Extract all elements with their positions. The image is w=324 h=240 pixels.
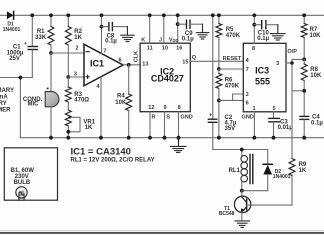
resistor R8 bbox=[301, 59, 322, 116]
svg-text:4: 4 bbox=[246, 58, 250, 64]
wire IC2 pin 12 (R) to ground bbox=[149, 112, 151, 138]
wire mic top lead bbox=[50, 53, 52, 91]
ground symbol below T1 bbox=[235, 221, 250, 228]
node junction at (20.4,77.5) bbox=[19, 76, 23, 80]
capacitor C8 bbox=[100, 23, 128, 45]
svg-text:J: J bbox=[159, 37, 162, 43]
svg-text:9: 9 bbox=[163, 105, 166, 111]
node top rail R1 bbox=[49, 13, 53, 17]
wire IC3 pin 8 to rail bbox=[253, 15, 255, 43]
wire IC3 pin 7 bbox=[219, 68, 243, 70]
svg-text:RL1: RL1 bbox=[229, 168, 241, 174]
node top rail R2 bbox=[66, 13, 70, 17]
svg-text:0.1µ: 0.1µ bbox=[311, 120, 323, 126]
wire IC2 pin 16 (VDD) to rail bbox=[177, 15, 179, 43]
svg-text:1N4001: 1N4001 bbox=[273, 174, 291, 180]
svg-text:0.1µ: 0.1µ bbox=[257, 36, 269, 42]
wire top supply rail bbox=[0, 14, 324, 16]
svg-text:MARY: MARY bbox=[0, 88, 14, 94]
node R7/R8 tap bbox=[302, 58, 306, 62]
svg-text:10: 10 bbox=[162, 45, 168, 51]
capacitor C3 bbox=[269, 112, 293, 138]
svg-text:+: + bbox=[24, 41, 27, 47]
svg-text:35V: 35V bbox=[225, 126, 236, 132]
svg-text:R: R bbox=[152, 114, 156, 120]
svg-text:IC3: IC3 bbox=[255, 66, 269, 76]
svg-text:7: 7 bbox=[103, 48, 106, 54]
svg-text:MER: MER bbox=[0, 108, 11, 114]
resistor R4 bbox=[115, 65, 131, 138]
svg-text:mA: mA bbox=[0, 95, 8, 101]
svg-text:470Ω: 470Ω bbox=[74, 97, 89, 103]
wire pin 3 of IC1 bbox=[68, 76, 84, 78]
wire output column down to R9 bbox=[292, 59, 304, 158]
svg-text:Q: Q bbox=[192, 55, 197, 61]
svg-text:IC1 = CA3140: IC1 = CA3140 bbox=[71, 146, 131, 157]
wire IC3 pin 6 bbox=[219, 99, 243, 101]
wire ground return from transformer (left edge) bbox=[0, 78, 32, 138]
svg-text:+: + bbox=[209, 112, 212, 118]
diode D1 bbox=[3, 11, 21, 33]
svg-text:0.1µ: 0.1µ bbox=[182, 36, 194, 42]
svg-text:470K: 470K bbox=[226, 33, 241, 39]
node ground rail R6 column bbox=[217, 136, 221, 140]
svg-text:RL1 = 12V 200Ω, 2C/O RELAY: RL1 = 12V 200Ω, 2C/O RELAY bbox=[71, 157, 155, 163]
flip-flop IC2 CD4027 bbox=[140, 43, 190, 112]
node relay top junction bbox=[240, 148, 244, 152]
node ground rail R4 bbox=[127, 136, 131, 140]
svg-text:230V: 230V bbox=[15, 174, 29, 180]
svg-text:1K: 1K bbox=[74, 35, 82, 41]
wire IC2 pin 10 (J) to rail bbox=[163, 15, 165, 43]
wire IC1 pin 7 to rail bbox=[101, 15, 103, 53]
relay RL1 coil bbox=[241, 150, 248, 191]
svg-text:10K: 10K bbox=[115, 100, 127, 106]
svg-text:IC1: IC1 bbox=[90, 58, 104, 68]
wire bottom ground rail bbox=[20, 137, 324, 139]
wire IC2 pin 8 (GND) to ground bbox=[178, 112, 180, 138]
svg-text:R4: R4 bbox=[117, 94, 125, 100]
resistor R6 bbox=[216, 69, 240, 138]
node ground rail mic bbox=[49, 136, 53, 140]
wire IC3 pin 1 to ground bbox=[253, 112, 255, 138]
svg-text:16: 16 bbox=[176, 45, 182, 51]
ground symbol below IC2 pin 8 bbox=[171, 138, 186, 153]
wire Q output of IC2 to RESET of IC3 bbox=[190, 60, 243, 62]
svg-text:R9: R9 bbox=[299, 162, 307, 168]
resistor R2 bbox=[65, 15, 82, 77]
ground symbol at C9 bbox=[196, 24, 209, 39]
resistor R7 bbox=[301, 15, 321, 59]
node R5/R6/pin7 junction bbox=[217, 67, 221, 71]
node junction R2 / pin3 / R3 bbox=[66, 75, 70, 79]
wire IC1 pin 4 to ground bbox=[100, 77, 102, 138]
svg-text:CLK: CLK bbox=[134, 51, 140, 63]
svg-text:BC548: BC548 bbox=[219, 211, 235, 217]
node junction R1 / pin2 / mic bbox=[49, 51, 53, 55]
lamp symbol bbox=[16, 187, 27, 201]
svg-text:12: 12 bbox=[148, 105, 154, 111]
svg-text:3: 3 bbox=[74, 72, 77, 78]
svg-text:2: 2 bbox=[246, 92, 249, 98]
svg-text:8: 8 bbox=[252, 46, 255, 52]
svg-text:VDD: VDD bbox=[169, 37, 179, 43]
svg-text:8: 8 bbox=[178, 105, 181, 111]
wire IC3 pin 3 output bbox=[286, 62, 292, 64]
transistor T1 BC548 bbox=[219, 191, 292, 221]
svg-text:10K: 10K bbox=[310, 33, 322, 39]
svg-text:13: 13 bbox=[142, 62, 148, 68]
wire relay bottom / D2 / collector bbox=[242, 190, 268, 192]
svg-text:CD4027: CD4027 bbox=[151, 74, 184, 84]
capacitor C2 bbox=[208, 112, 236, 132]
node ground rail pin4 bbox=[99, 136, 103, 140]
op-amp IC1 bbox=[74, 44, 123, 90]
svg-text:O/P: O/P bbox=[287, 49, 297, 55]
svg-text:1N4001: 1N4001 bbox=[3, 27, 21, 33]
diode D2 bbox=[263, 150, 291, 191]
bottom page rule bbox=[0, 230, 324, 232]
svg-text:25V: 25V bbox=[9, 56, 20, 62]
svg-text:6: 6 bbox=[246, 100, 249, 106]
svg-text:K: K bbox=[141, 37, 145, 43]
svg-text:3: 3 bbox=[276, 61, 279, 67]
node ground rail VR1 bbox=[66, 136, 70, 140]
svg-text:2: 2 bbox=[75, 45, 78, 51]
svg-text:33K: 33K bbox=[35, 35, 47, 41]
wire +V line to relay (crosses ground rail) bbox=[213, 15, 268, 149]
svg-text:S: S bbox=[166, 114, 170, 120]
svg-text:11: 11 bbox=[147, 45, 153, 51]
node output junction R4 bbox=[127, 63, 131, 67]
ground symbol at C8 bbox=[121, 27, 135, 42]
node R6 / pins 2-6 junction bbox=[217, 99, 221, 103]
capacitor C4 bbox=[300, 115, 323, 138]
svg-text:6: 6 bbox=[118, 57, 121, 63]
resistor R1 bbox=[35, 15, 54, 53]
ground symbol at C10 bbox=[271, 25, 286, 40]
svg-text:RY: RY bbox=[0, 101, 7, 107]
svg-text:470K: 470K bbox=[225, 83, 240, 89]
capacitor C1 bbox=[7, 15, 38, 77]
resistor R9 bbox=[289, 159, 307, 176]
svg-text:GND: GND bbox=[180, 114, 192, 120]
svg-text:1K: 1K bbox=[85, 125, 93, 131]
timer IC3 555 bbox=[243, 43, 286, 112]
capacitor C9 bbox=[176, 20, 203, 42]
wire IC1 output to IC2 pin 13 bbox=[123, 64, 140, 66]
svg-text:R8: R8 bbox=[310, 67, 318, 73]
svg-text:0.01µ: 0.01µ bbox=[278, 125, 294, 131]
svg-text:555: 555 bbox=[255, 77, 270, 87]
transformer label (cut off at left) bbox=[0, 88, 14, 114]
node VR1 wiper junction bbox=[66, 130, 70, 134]
bulb box B1 bbox=[4, 148, 57, 200]
svg-text:7: 7 bbox=[246, 67, 249, 73]
svg-text:BULB: BULB bbox=[14, 180, 31, 186]
svg-text:0.1µ: 0.1µ bbox=[105, 39, 117, 45]
svg-text:GND: GND bbox=[242, 115, 254, 121]
svg-text:MIC: MIC bbox=[28, 102, 40, 108]
potentiometer VR1 bbox=[65, 102, 95, 138]
node top rail pin7 bbox=[100, 13, 104, 17]
wire IC2 pin 11 (K) to rail bbox=[149, 15, 151, 43]
svg-text:4: 4 bbox=[96, 84, 100, 90]
wire R9 bottom to base bbox=[291, 176, 293, 206]
resistor R5 bbox=[216, 15, 241, 69]
condenser microphone bbox=[23, 88, 59, 108]
resistor R3 bbox=[65, 77, 89, 103]
wire mic bottom lead bbox=[50, 107, 52, 138]
svg-text:1K: 1K bbox=[299, 168, 307, 174]
node collector junction bbox=[240, 189, 244, 193]
wire pin 2 of IC1 bbox=[51, 52, 84, 54]
svg-text:15: 15 bbox=[182, 59, 188, 65]
relay RL1 core bbox=[250, 155, 253, 184]
svg-text:10K: 10K bbox=[310, 73, 322, 79]
node R8 bottom tap bbox=[302, 89, 306, 93]
svg-text:RESET: RESET bbox=[223, 56, 242, 62]
wire IC2 pin 9 (S) to ground bbox=[164, 112, 166, 138]
wire IC3 pin 2 bracket bbox=[233, 94, 244, 100]
capacitor C10 bbox=[252, 21, 277, 42]
node top rail C1 bbox=[30, 13, 34, 17]
